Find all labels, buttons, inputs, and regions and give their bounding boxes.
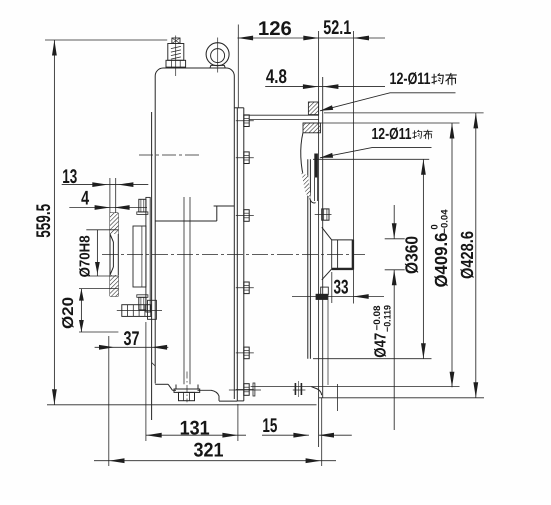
svg-text:15: 15 — [262, 415, 277, 437]
svg-text:Ø428.6: Ø428.6 — [457, 231, 477, 279]
svg-text:559.5: 559.5 — [33, 204, 55, 238]
svg-text:Ø70H8: Ø70H8 — [77, 235, 93, 277]
svg-text:Ø20: Ø20 — [60, 297, 77, 329]
svg-text:33: 33 — [334, 277, 349, 299]
svg-text:−0.08: −0.08 — [372, 306, 383, 331]
svg-text:126: 126 — [258, 18, 292, 40]
svg-text:37: 37 — [124, 328, 140, 350]
svg-text:0: 0 — [429, 224, 440, 229]
svg-text:−0.119: −0.119 — [382, 305, 393, 332]
svg-text:12-Ø11: 12-Ø11 — [372, 126, 412, 143]
svg-text:−0.04: −0.04 — [440, 209, 451, 234]
svg-text:52.1: 52.1 — [323, 17, 351, 39]
svg-text:12-Ø11: 12-Ø11 — [390, 70, 431, 88]
svg-text:4: 4 — [81, 187, 89, 209]
svg-text:Ø47: Ø47 — [373, 333, 390, 358]
svg-text:4.8: 4.8 — [266, 66, 287, 88]
svg-text:131: 131 — [180, 418, 210, 440]
svg-text:321: 321 — [194, 440, 224, 462]
svg-text:13: 13 — [62, 166, 77, 188]
svg-text:Ø409.6: Ø409.6 — [431, 232, 451, 287]
svg-text:Ø360: Ø360 — [401, 236, 421, 274]
